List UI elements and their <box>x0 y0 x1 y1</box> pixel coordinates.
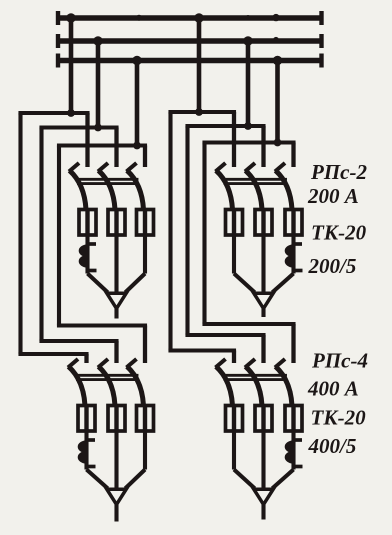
fuse FU2 pole 3: conductor through fuse <box>291 210 295 236</box>
busbar B right end cap <box>319 34 323 48</box>
wire: stub down to upper switch pole (left B) <box>114 128 118 168</box>
node: branch junction dot on tap (right C) <box>274 139 282 147</box>
switch QS2: operating bar (double line) <box>225 178 286 181</box>
feeder arrow (outgoing line) of QS1 <box>107 293 126 308</box>
wire: stub down to upper switch pole (right B) <box>261 126 265 167</box>
current transformer TA2: top tick <box>294 242 303 246</box>
wire: elbow horizontal to lower switch pole (left B) <box>42 339 117 343</box>
busbar A left end cap <box>56 11 60 25</box>
wire: stub down to upper switch pole (left A) <box>85 113 89 167</box>
wire: stub down to lower switch pole (left C) <box>143 326 147 364</box>
switch QS2 pole 2: contact tick <box>245 163 255 172</box>
fuse FU2 pole 3 <box>285 210 302 236</box>
fuse FU2 pole 2 <box>255 210 272 236</box>
wire: feeder tail of QS1 <box>114 309 118 319</box>
fuse FU2 pole 1: conductor through fuse <box>232 210 236 236</box>
fuse FU4 pole 1: conductor through fuse <box>232 406 236 432</box>
switch QS4 pole 3: knife blade <box>276 367 293 406</box>
switch QS3 pole 1: knife blade <box>69 367 86 406</box>
wire: pole 1 drop below fuse (QS3) <box>84 431 88 470</box>
switch QS3: operating bar (double line) <box>78 374 138 377</box>
switch QS4: operating bar (double line) <box>225 374 286 377</box>
wire: vertical tap from bus A down (left group) <box>69 18 74 113</box>
wire: elbow horizontal to lower switch pole (right B) <box>188 333 264 337</box>
svg-text:200 А: 200 А <box>307 184 359 208</box>
switch QS3 pole 3: knife blade <box>127 367 144 406</box>
busbar C left end cap <box>56 54 60 68</box>
wire: funnel slant from pole 3 to apex (QS4) <box>272 470 293 489</box>
wire: pole 1 drop below fuse (QS2) <box>232 235 236 274</box>
wire: pole 2 drop to feeder apex (QS3) <box>114 431 118 489</box>
node: bus A tap dot (right) <box>194 13 203 22</box>
current transformer TA4: upper winding bump <box>286 442 294 453</box>
current transformer TA2: bottom tick <box>294 269 303 273</box>
switch QS2 pole 3: contact tick <box>275 163 285 172</box>
fuse FU4 pole 3 <box>285 406 302 432</box>
wire: long vertical feed to lower switch (right C) <box>202 143 206 325</box>
busbar phase C <box>58 58 322 63</box>
switch QS4 pole 1: contact tick <box>216 359 226 368</box>
fuse FU4 pole 1 <box>226 406 243 432</box>
switch QS1: operating bar (double line) <box>79 178 138 181</box>
node: bus B tap dot (left) <box>93 36 102 45</box>
current transformer TA3: upper winding bump <box>79 442 87 453</box>
fuse FU3 pole 3 <box>137 406 154 432</box>
switch QS2 pole 1: contact tick <box>216 163 226 172</box>
wire: pole 2 drop to feeder apex (QS2) <box>261 235 265 293</box>
fuse FU4 pole 2: conductor through fuse <box>261 406 265 432</box>
fuse FU1 pole 3 <box>137 210 154 236</box>
wire: funnel slant from pole 1 to apex (QS4) <box>234 470 255 489</box>
wire: feeder tail of QS3 <box>114 505 118 522</box>
current transformer TA3: lower winding bump <box>79 452 87 463</box>
feeder arrow (outgoing line) of QS3 <box>107 489 126 504</box>
switch QS1 pole 1: knife blade <box>70 171 87 210</box>
wire: horizontal branch at y=113.0 to upper switch pole and lower feed (left A) <box>21 111 88 115</box>
fuse FU3 pole 2 <box>108 406 125 432</box>
wire: long vertical feed to lower switch (left C) <box>57 146 61 326</box>
switch QS4 pole 3: contact tick <box>275 359 285 368</box>
current transformer TA4: lower winding bump <box>286 452 294 463</box>
svg-text:РПс-2: РПс-2 <box>310 160 367 184</box>
wire: long vertical feed to lower switch (right B) <box>185 126 189 335</box>
wire: elbow horizontal to lower switch pole (left A) <box>21 352 87 356</box>
fuse FU1 pole 2 <box>108 210 125 236</box>
artifact ink blob on busbar A <box>136 15 142 21</box>
wire: pole 2 drop to feeder apex (QS4) <box>261 431 265 489</box>
wire: elbow horizontal to lower switch pole (right A) <box>171 348 235 352</box>
switch QS4 pole 1: knife blade <box>216 367 233 406</box>
switch QS4 pole 2: contact tick <box>245 359 255 368</box>
busbar A right end cap <box>319 11 323 25</box>
wire: horizontal branch at y=145.5 to upper switch pole and lower feed (left C) <box>59 143 145 147</box>
busbar B left end cap <box>56 34 60 48</box>
switch QS1 pole 2: contact tick <box>98 163 108 172</box>
wire: pole 2 drop to feeder apex (QS1) <box>114 235 118 293</box>
wire: feeder tail of QS2 <box>261 309 265 318</box>
node: bus C tap dot (left) <box>132 56 141 65</box>
current transformer TA1: upper winding bump <box>80 246 88 257</box>
switch QS2 pole 2: knife blade <box>246 171 263 210</box>
wire: funnel slant from pole 1 to apex (QS1) <box>88 274 108 293</box>
wire: funnel slant from pole 1 to apex (QS2) <box>234 274 255 293</box>
svg-text:200/5: 200/5 <box>308 254 357 278</box>
current transformer TA3: top tick <box>87 438 96 442</box>
node: branch junction dot on tap (right B) <box>244 122 252 130</box>
switch QS4 pole 2: knife blade <box>246 367 263 406</box>
node: branch junction dot on tap (left A) <box>67 109 75 117</box>
fuse FU3 pole 1 <box>78 406 95 432</box>
busbar phase A <box>58 15 322 20</box>
wire: funnel slant from pole 1 to apex (QS3) <box>87 470 108 489</box>
node: branch junction dot on tap (left C) <box>133 142 141 150</box>
current transformer TA2: upper winding bump <box>286 246 294 257</box>
node: branch junction dot on tap (left B) <box>94 124 102 132</box>
fuse FU3 pole 1: conductor through fuse <box>84 406 88 432</box>
feeder arrow (outgoing line) of QS4 <box>254 489 273 504</box>
wire: horizontal branch at y=142.5 to upper switch pole and lower feed (right C) <box>205 140 294 144</box>
wire: vertical tap from bus B down (right group) <box>246 41 251 126</box>
current transformer TA4: top tick <box>294 438 303 442</box>
switch QS2 pole 3: knife blade <box>276 171 293 210</box>
node: branch junction dot on tap (right A) <box>195 108 203 116</box>
fuse FU2 pole 2: conductor through fuse <box>261 210 265 236</box>
current transformer TA1: bottom tick <box>88 269 97 273</box>
current transformer TA1: top tick <box>88 242 97 246</box>
node: bus C tap dot (right) <box>273 56 282 65</box>
wire: elbow horizontal to lower switch pole (left C) <box>59 323 145 327</box>
current transformer TA1: lower winding bump <box>80 256 88 267</box>
switch QS1 pole 2: knife blade <box>99 171 116 210</box>
wire: pole 3 drop below fuse (QS4) <box>291 431 295 470</box>
artifact ink blob on busbar B <box>273 37 279 43</box>
wire: stub down to upper switch pole (right C) <box>291 143 295 168</box>
busbar phase B <box>58 38 322 43</box>
fuse FU1 pole 1: conductor through fuse <box>85 210 89 236</box>
svg-text:ТК-20: ТК-20 <box>311 406 367 430</box>
wire: vertical tap from bus C down (right group) <box>275 61 280 143</box>
wire: stub down to lower switch pole (right C) <box>291 324 295 363</box>
wire: pole 3 drop below fuse (QS1) <box>143 235 147 274</box>
switch QS3 pole 3: contact tick <box>127 359 137 368</box>
fuse FU2 pole 1 <box>226 210 243 236</box>
fuse FU1 pole 2: conductor through fuse <box>114 210 118 236</box>
wire: horizontal branch at y=126.0 to upper switch pole and lower feed (right B) <box>188 124 264 128</box>
wire: feeder tail of QS4 <box>261 505 265 520</box>
wire: stub down to lower switch pole (right A) <box>232 351 236 364</box>
switch QS3 pole 2: knife blade <box>99 367 116 406</box>
current transformer TA3: bottom tick <box>87 465 96 469</box>
switch QS1 pole 3: contact tick <box>127 163 137 172</box>
switch QS1 pole 1: contact tick <box>69 163 79 172</box>
wire: stub down to lower switch pole (right B) <box>261 335 265 363</box>
switch QS2 pole 1: knife blade <box>216 171 233 210</box>
wire: pole 1 drop below fuse (QS1) <box>85 235 89 274</box>
wire: elbow horizontal to lower switch pole (right C) <box>205 322 294 326</box>
wire: stub down to upper switch pole (left C) <box>143 146 147 168</box>
fuse FU4 pole 2 <box>255 406 272 432</box>
current transformer TA4: bottom tick <box>294 465 303 469</box>
wire: pole 1 drop below fuse (QS4) <box>232 431 236 470</box>
wire: long vertical feed to lower switch (left A) <box>18 113 22 354</box>
node: bus B tap dot (right) <box>243 36 252 45</box>
svg-text:400/5: 400/5 <box>308 434 357 458</box>
fuse FU3 pole 2: conductor through fuse <box>114 406 118 432</box>
wire: pole 3 drop below fuse (QS3) <box>143 431 147 470</box>
feeder arrow (outgoing line) of QS2 <box>254 293 273 308</box>
wire: funnel slant from pole 3 to apex (QS1) <box>125 274 145 293</box>
wire: vertical tap from bus C down (left group) <box>135 61 140 146</box>
switch QS1 pole 3: knife blade <box>127 171 144 210</box>
busbar C right end cap <box>319 54 323 68</box>
switch QS3 pole 1: contact tick <box>68 359 78 368</box>
wire: vertical tap from bus B down (left group) <box>96 41 101 128</box>
wire: horizontal branch at y=127.5 to upper switch pole and lower feed (left B) <box>42 125 117 129</box>
wire: long vertical feed to lower switch (left B) <box>39 128 43 342</box>
current transformer TA2: lower winding bump <box>286 256 294 267</box>
wire: funnel slant from pole 3 to apex (QS3) <box>125 470 145 489</box>
wire: horizontal branch at y=112.0 to upper switch pole and lower feed (right A) <box>171 110 235 114</box>
wire: pole 3 drop below fuse (QS2) <box>291 235 295 274</box>
fuse FU4 pole 3: conductor through fuse <box>291 406 295 432</box>
svg-text:ТК-20: ТК-20 <box>311 221 367 245</box>
wire: long vertical feed to lower switch (right A) <box>168 112 172 351</box>
wire: stub down to lower switch pole (left B) <box>114 341 118 363</box>
artifact ink blob on busbar A <box>272 14 279 21</box>
svg-text:РПс-4: РПс-4 <box>311 349 368 373</box>
fuse FU3 pole 3: conductor through fuse <box>143 406 147 432</box>
fuse FU1 pole 3: conductor through fuse <box>143 210 147 236</box>
wire: vertical tap from bus A down (right group) <box>197 18 202 112</box>
wire: funnel slant from pole 3 to apex (QS2) <box>272 274 293 293</box>
switch QS3 pole 2: contact tick <box>98 359 108 368</box>
svg-text:400 А: 400 А <box>307 377 359 401</box>
artifact ink blob on busbar A <box>245 15 250 20</box>
node: bus A tap dot (left) <box>66 13 75 22</box>
wire: stub down to lower switch pole (left A) <box>84 354 88 363</box>
wire: stub down to upper switch pole (right A) <box>232 112 236 167</box>
fuse FU1 pole 1 <box>79 210 96 236</box>
